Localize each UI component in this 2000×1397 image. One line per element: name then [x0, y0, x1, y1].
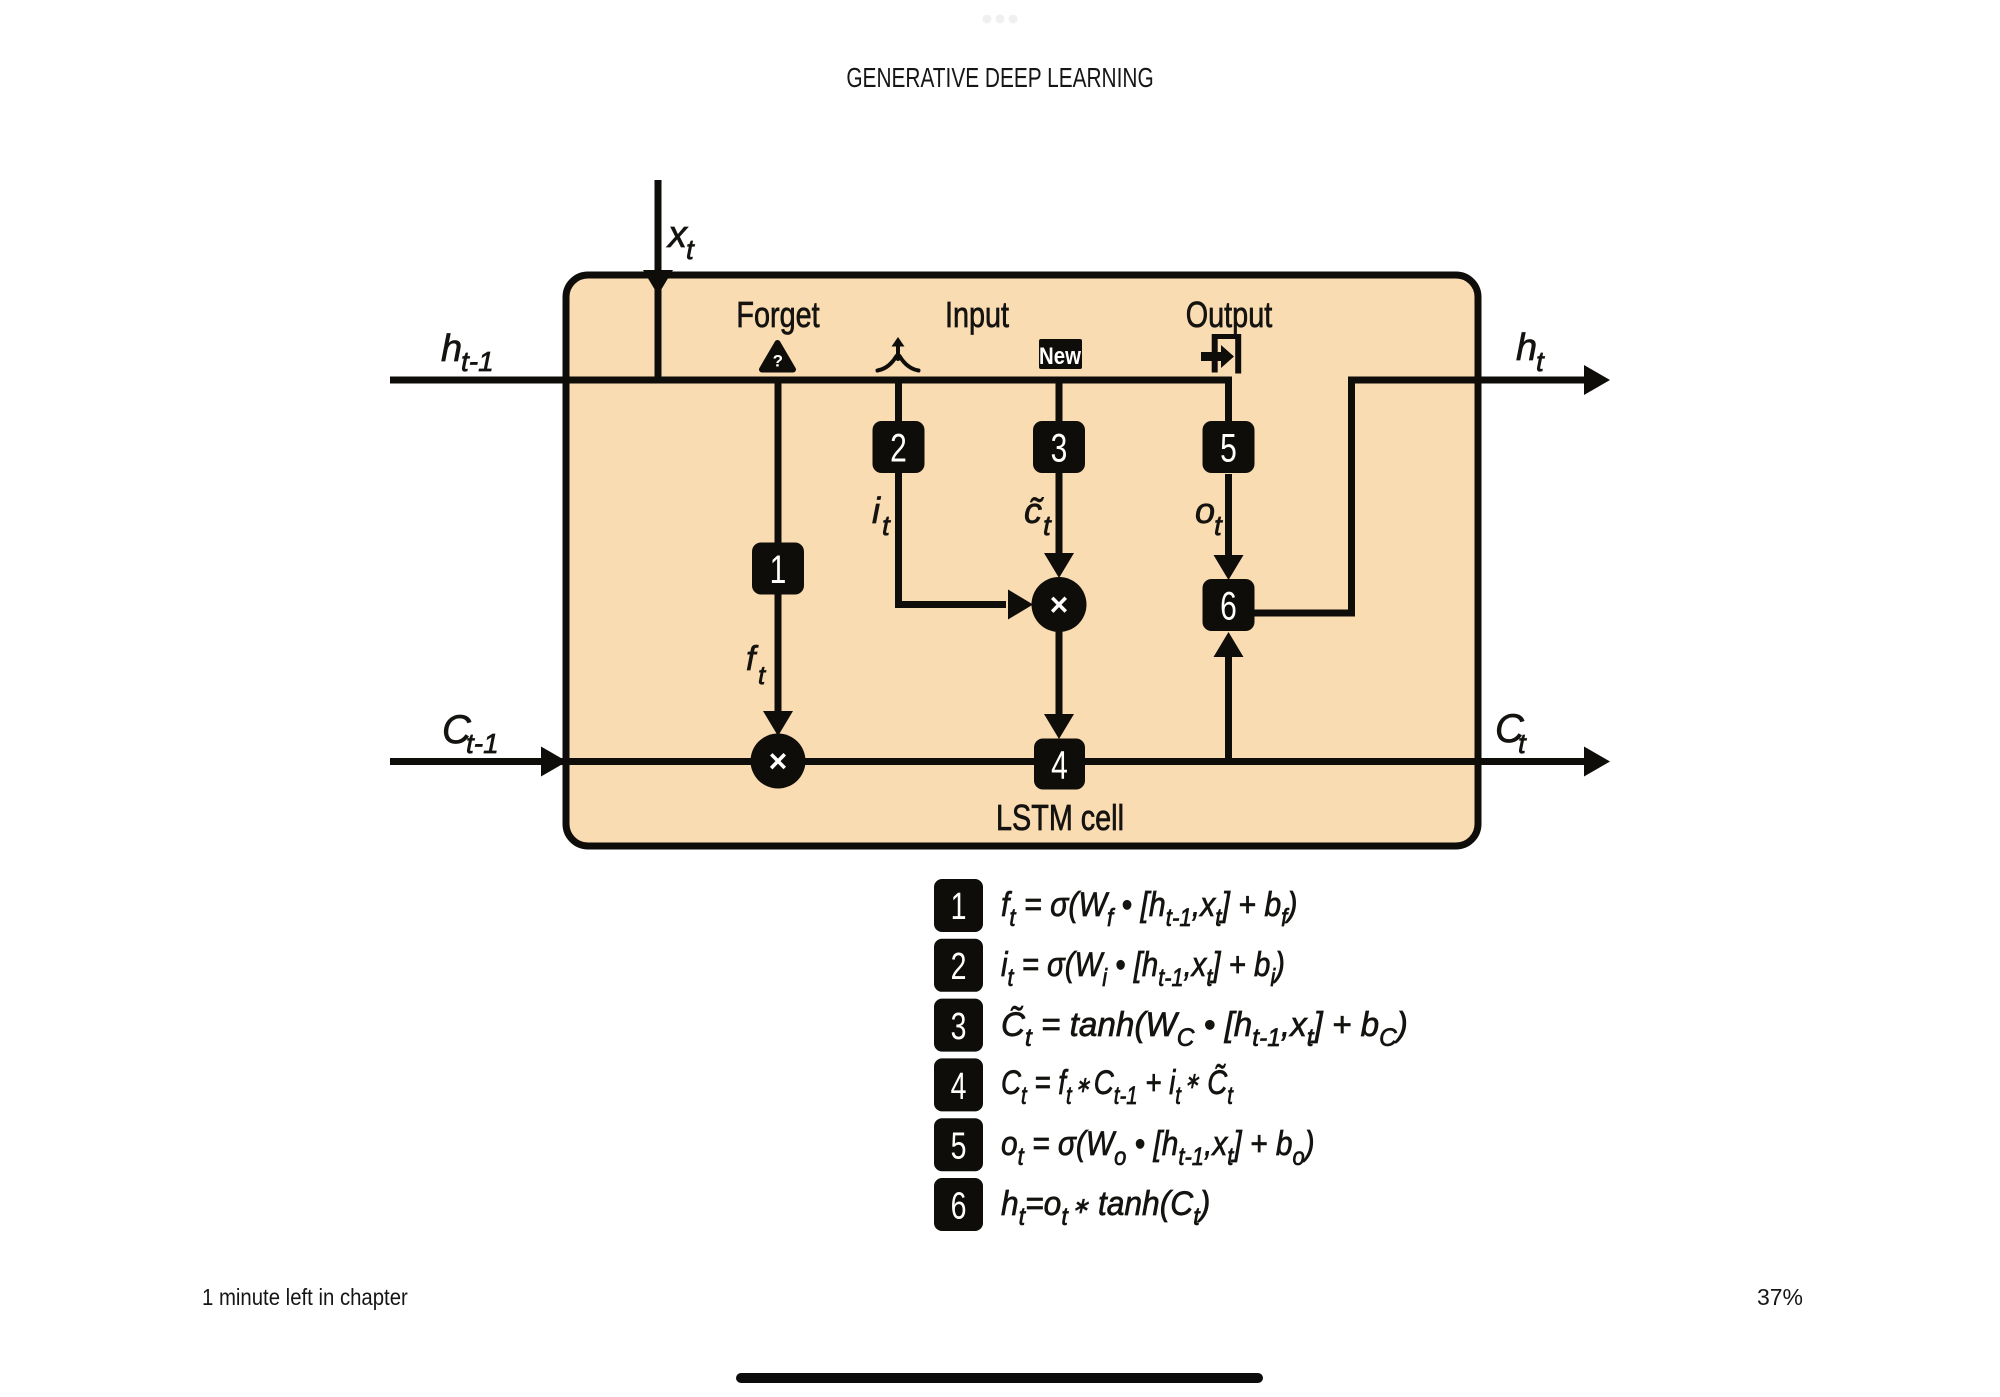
svg-text:6: 6: [1220, 584, 1237, 628]
svg-text:1 minute left in chapter: 1 minute left in chapter: [202, 1284, 408, 1310]
svg-text:3: 3: [1051, 426, 1068, 470]
svg-text:h: h: [441, 328, 462, 370]
svg-text:C̃t = tanh(WC • [ht-1,xt] + bC: C̃t = tanh(WC • [ht-1,xt] + bC): [1001, 1006, 1408, 1052]
svg-text:×: ×: [769, 743, 788, 779]
svg-text:1: 1: [951, 886, 967, 928]
svg-text:ot = σ(Wo • [ht-1,xt] + bo): ot = σ(Wo • [ht-1,xt] + bo): [1001, 1124, 1315, 1170]
svg-text:t: t: [1214, 510, 1223, 541]
svg-text:Forget: Forget: [736, 294, 819, 335]
svg-text:5: 5: [951, 1126, 967, 1168]
svg-text:t: t: [1536, 346, 1545, 377]
svg-text:2: 2: [890, 426, 907, 470]
svg-text:?: ?: [773, 352, 783, 371]
svg-text:4: 4: [951, 1066, 967, 1108]
svg-text:t-1: t-1: [461, 346, 494, 377]
svg-text:LSTM cell: LSTM cell: [996, 797, 1124, 838]
svg-text:6: 6: [951, 1186, 967, 1228]
svg-text:3: 3: [951, 1006, 967, 1048]
svg-text:1: 1: [770, 548, 787, 592]
svg-text:o: o: [1195, 490, 1215, 531]
svg-text:37%: 37%: [1757, 1284, 1803, 1310]
svg-text:i: i: [872, 490, 881, 531]
svg-text:c̃: c̃: [1024, 490, 1045, 531]
svg-text:Input: Input: [945, 294, 1009, 335]
svg-text:t-1: t-1: [466, 728, 499, 759]
svg-text:t: t: [1043, 510, 1052, 541]
svg-text:it = σ(Wi • [ht-1,xt] + bi): it = σ(Wi • [ht-1,xt] + bi): [1001, 945, 1285, 991]
svg-text:ht=ot ∗ tanh(Ct): ht=ot ∗ tanh(Ct): [1001, 1184, 1210, 1231]
svg-text:5: 5: [1220, 426, 1237, 470]
svg-text:ft = σ(Wf • [ht-1,xt] + bf): ft = σ(Wf • [ht-1,xt] + bf): [1001, 885, 1297, 932]
svg-text:Output: Output: [1186, 294, 1272, 335]
svg-text:×: ×: [1050, 587, 1069, 623]
svg-text:t: t: [686, 234, 695, 265]
svg-text:t: t: [1518, 728, 1527, 759]
svg-text:4: 4: [1051, 743, 1068, 787]
svg-text:2: 2: [951, 946, 967, 988]
svg-text:h: h: [1516, 327, 1537, 369]
svg-text:t: t: [882, 510, 891, 541]
svg-text:New: New: [1039, 342, 1082, 369]
svg-text:GENERATIVE DEEP LEARNING: GENERATIVE DEEP LEARNING: [846, 63, 1153, 94]
svg-text:Ct = ft ∗ Ct-1 + it ∗ C̃t: Ct = ft ∗ Ct-1 + it ∗ C̃t: [1001, 1063, 1234, 1109]
